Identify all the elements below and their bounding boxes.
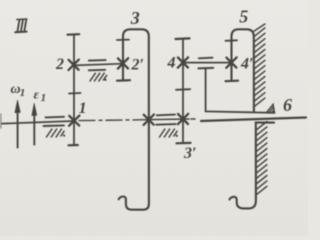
cross gear 2' on countershaft [118, 58, 128, 68]
wall hatching lower [256, 122, 267, 195]
label epsilon1 (angular acceleration) [34, 87, 47, 104]
gear line 3'-4 (vertical through shafts) [182, 39, 184, 143]
svg-text:2: 2 [55, 56, 64, 73]
gear 2' bottom rim cap [117, 79, 130, 82]
cross gear 3' on main shaft [178, 114, 188, 124]
cross gear 4' on countershaft [226, 57, 236, 67]
bearing countershaft 2-2' [89, 60, 107, 81]
gear 1 bottom rim cap [69, 144, 78, 147]
svg-text:1: 1 [79, 100, 87, 117]
wall hatching upper (fixed frame) [254, 24, 265, 107]
wire countershaft 2-2' [74, 64, 123, 66]
mesh tick gears 3'-4 [176, 88, 190, 91]
svg-text:5: 5 [239, 7, 248, 27]
svg-text:4: 4 [167, 55, 176, 72]
cross gear 1 on input shaft [69, 116, 79, 126]
svg-text:4′: 4′ [240, 56, 254, 73]
gear 3' bottom rim cap [177, 142, 191, 145]
gear 4 top rim cap [176, 37, 190, 40]
wire axis between 3' and 4 shaft crosses [148, 118, 195, 121]
arrow omega1 [15, 100, 20, 148]
ring gear 3 rim (bracket with bottom hook) [119, 29, 149, 209]
label III (input shaft roman numeral) [15, 19, 27, 32]
wire centerline dash-dot 1-3' [79, 119, 148, 122]
svg-text:3′: 3′ [183, 145, 197, 162]
svg-text:3: 3 [130, 8, 140, 28]
mesh tick 2'-ring3 [117, 39, 129, 41]
svg-text:1: 1 [20, 87, 26, 99]
gear 4' bottom rim cap [226, 80, 239, 83]
frame line to wall [206, 111, 275, 112]
svg-text:1: 1 [41, 92, 47, 104]
bearing main shaft at gear 1 [44, 117, 65, 137]
gear line 1-2 (vertical through shafts) [73, 35, 75, 146]
scan smudge left edge [0, 114, 2, 128]
ring gear 5 rim (bracket, fixed to frame wall) [232, 29, 254, 111]
svg-text:2′: 2′ [131, 57, 145, 74]
bearing countershaft 4-4' with pedestal post [198, 58, 213, 112]
frame support triangle [267, 104, 275, 112]
cross gear 4 on countershaft [178, 57, 188, 67]
wall lower section with ring 5 bottom hook [230, 123, 275, 209]
mesh tick gears 1-2 [69, 92, 81, 95]
shaft 6 output line [201, 118, 306, 122]
mesh tick 4'-ring5 [226, 39, 238, 42]
svg-text:ε: ε [34, 87, 40, 102]
cross gear 2 on countershaft [69, 60, 79, 70]
wire input shaft solid line [2, 121, 74, 124]
svg-text:6: 6 [283, 95, 292, 115]
cross ring 3 hub on main axis [144, 115, 154, 125]
arrow epsilon1 [32, 103, 37, 145]
wire countershaft 4-4' [183, 62, 232, 64]
label omega1 (angular velocity) [11, 82, 26, 99]
gear 2 top rim cap [68, 33, 80, 36]
bearing main shaft between 3' and gear line [156, 115, 177, 137]
